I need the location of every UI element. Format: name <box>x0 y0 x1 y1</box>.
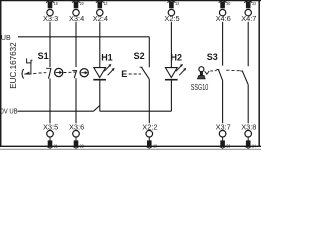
linkage S1 dashed rod segment 2 <box>64 71 76 74</box>
svg-text:X3:3: X3:3 <box>43 14 58 23</box>
terminal X3:4 top plug pin 20 <box>69 0 84 23</box>
wire X3:3 to S1 contact A <box>49 22 51 67</box>
linkage S3 dashed rod segment 2 <box>226 69 240 72</box>
frame right border <box>258 0 260 147</box>
svg-text:33: 33 <box>252 1 256 7</box>
wire H1 cathode down to 0V rail <box>99 81 101 112</box>
wire S1 contact A to X3:5 <box>49 79 51 124</box>
terminal X3:5 bottom plug pin 21 <box>43 123 58 150</box>
LED H2 cathode bar <box>165 79 178 81</box>
linkage S2 dashed rod <box>129 73 141 75</box>
wire S2 contact to X2:2 <box>148 79 150 123</box>
terminal X2:4 top plug pin 12 <box>93 0 108 23</box>
svg-text:S1: S1 <box>38 51 49 61</box>
svg-text:X4:6: X4:6 <box>216 14 231 23</box>
bottom grey edge line <box>0 148 261 150</box>
LED H2 triangle <box>165 68 177 78</box>
switch S1 mushroom head arc <box>22 69 24 79</box>
frame top border <box>0 0 261 2</box>
frame left border <box>0 0 2 147</box>
svg-text:E: E <box>121 69 127 79</box>
svg-text:X4:7: X4:7 <box>241 14 256 23</box>
LED H2 emission arrow 1 <box>176 64 183 71</box>
linkage S3 dashed rod segment 1 <box>210 70 216 72</box>
wire S3 contact A to X3:7 <box>222 80 224 123</box>
terminal X3:7 bottom plug pin 23 <box>216 123 231 150</box>
switch S3 contact B (NO) <box>240 71 248 85</box>
LED H2 emission arrow 2 <box>179 68 186 75</box>
switch S3 contact A (NO) <box>216 70 222 81</box>
LED H1 emission arrow 2 <box>108 68 115 75</box>
LED H1 triangle <box>94 68 106 78</box>
terminal X3:6 bottom plug pin 22 <box>69 123 84 150</box>
svg-text:UB: UB <box>1 35 11 42</box>
svg-text:10: 10 <box>153 143 157 149</box>
svg-text:13: 13 <box>175 1 179 7</box>
switch S3 linkage zigzag <box>205 71 210 74</box>
switch S3 key shaft <box>200 72 203 76</box>
svg-text:EUC.167632: EUC.167632 <box>9 42 18 89</box>
svg-text:30: 30 <box>226 1 230 7</box>
wire 0V rail right segment <box>100 110 172 112</box>
svg-text:12: 12 <box>104 1 108 7</box>
wire X3:4 to S1 contact B <box>75 22 77 67</box>
svg-text:22: 22 <box>80 143 84 149</box>
wire X2:4 to H1 anode <box>99 22 101 68</box>
linkage S1 detent circle B with arrow <box>80 69 88 77</box>
wire S3 contact B to X3:8 <box>247 85 249 124</box>
linkage S1 detent circle A with arrow <box>55 68 63 76</box>
switch S1 actuator stem <box>30 63 32 74</box>
wire UB rail corner down to S2 contact <box>148 37 150 68</box>
switch S1 contact A (NO) <box>46 68 51 78</box>
svg-text:0V UB: 0V UB <box>0 109 17 116</box>
wire X2:5 to H2 anode <box>170 22 172 68</box>
wire S1 contact B to X3:6 <box>75 78 77 123</box>
wire X4:7 to S3 contact B <box>247 22 249 66</box>
svg-text:X3:4: X3:4 <box>69 14 84 23</box>
svg-text:SSG10: SSG10 <box>191 83 209 92</box>
svg-text:19: 19 <box>54 1 58 7</box>
svg-text:X2:4: X2:4 <box>93 14 108 23</box>
svg-text:21: 21 <box>54 143 58 149</box>
svg-text:H1: H1 <box>101 53 113 63</box>
svg-text:H2: H2 <box>171 53 183 63</box>
terminal X3:8 bottom plug pin 24 <box>241 123 256 150</box>
LED H1 emission arrow 1 <box>104 64 111 71</box>
svg-text:20: 20 <box>80 1 84 7</box>
svg-text:24: 24 <box>252 143 256 149</box>
wire 0V rail diagonal join at H1 <box>94 106 100 112</box>
wire 0V rail left segment <box>18 110 94 112</box>
terminal X4:6 top plug pin 30 <box>216 0 231 23</box>
switch S1 turn actuator symbol <box>27 58 33 63</box>
svg-text:X2:5: X2:5 <box>164 14 179 23</box>
wire X4:6 to S3 contact A <box>222 22 224 66</box>
switch S3 key bit <box>198 76 206 79</box>
svg-text:S3: S3 <box>207 52 218 62</box>
LED H1 cathode bar <box>93 79 106 81</box>
switch S1 contact B (NO) <box>72 70 77 78</box>
terminal X2:5 top plug pin 13 <box>164 0 179 23</box>
switch S3 key actuator head <box>199 67 204 72</box>
wire UB rail horizontal <box>18 36 149 38</box>
switch S2 contact (NO) <box>140 67 150 79</box>
terminal X4:7 top plug pin 33 <box>241 0 256 23</box>
linkage S1 dashed rod segment 1 <box>24 73 46 74</box>
switch S1 actuator triangle <box>25 72 30 75</box>
terminal X3:3 top plug pin 19 <box>43 0 58 23</box>
svg-text:23: 23 <box>226 143 230 149</box>
terminal X2:2 bottom plug pin 10 <box>142 123 157 150</box>
svg-text:S2: S2 <box>134 51 145 61</box>
wire H2 cathode down to 0V rail corner <box>170 81 172 112</box>
frame bottom border <box>0 145 261 147</box>
